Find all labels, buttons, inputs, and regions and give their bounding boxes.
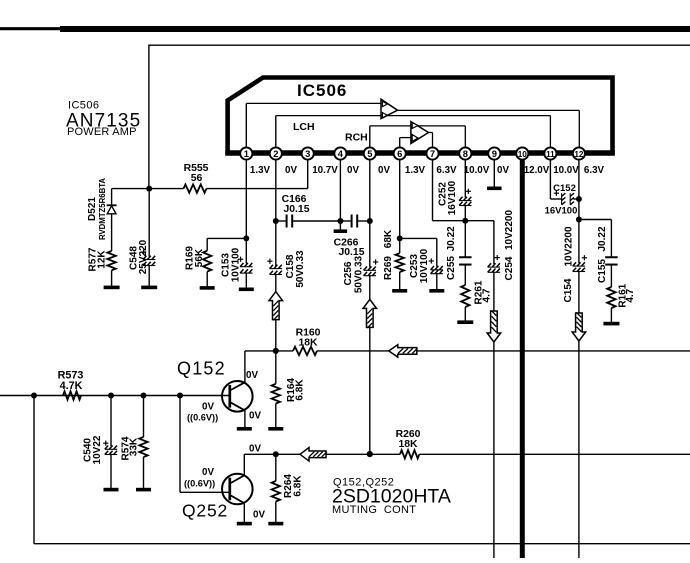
svg-text:18K: 18K — [398, 439, 418, 450]
svg-text:0V: 0V — [249, 411, 261, 422]
svg-text:11: 11 — [546, 150, 555, 159]
svg-text:0V: 0V — [202, 402, 214, 413]
svg-text:((0.6V)): ((0.6V)) — [184, 479, 215, 489]
svg-text:12K: 12K — [97, 250, 108, 269]
svg-text:5: 5 — [367, 148, 372, 159]
svg-text:7: 7 — [430, 148, 435, 159]
svg-text:D521: D521 — [87, 197, 98, 221]
svg-text:Q252: Q252 — [182, 501, 228, 521]
svg-text:4.7: 4.7 — [482, 288, 493, 302]
svg-text:1: 1 — [244, 148, 249, 159]
svg-text:Q152: Q152 — [177, 359, 226, 379]
svg-text:10.0V: 10.0V — [464, 165, 490, 176]
svg-text:16V100: 16V100 — [545, 206, 578, 217]
svg-text:9: 9 — [492, 148, 497, 159]
svg-text:18K: 18K — [298, 338, 318, 349]
svg-text:0V: 0V — [378, 165, 390, 176]
svg-text:LCH: LCH — [293, 121, 315, 133]
svg-text:10V2200: 10V2200 — [504, 210, 515, 250]
svg-text:C254: C254 — [504, 256, 515, 280]
svg-text:((0.6V)): ((0.6V)) — [187, 413, 218, 423]
svg-text:J0.22: J0.22 — [446, 226, 457, 251]
svg-text:16V100: 16V100 — [447, 180, 458, 215]
svg-text:J0.22: J0.22 — [597, 226, 608, 251]
svg-text:6: 6 — [397, 148, 402, 159]
svg-text:10.7V: 10.7V — [312, 165, 338, 176]
svg-text:MUTING CONT: MUTING CONT — [332, 504, 416, 516]
svg-text:12.0V: 12.0V — [524, 165, 550, 176]
svg-text:0V: 0V — [246, 370, 258, 381]
svg-text:10V22: 10V22 — [92, 435, 103, 464]
svg-text:50V0.33: 50V0.33 — [295, 250, 306, 288]
svg-text:RCH: RCH — [345, 132, 368, 144]
svg-text:6.8K: 6.8K — [295, 379, 306, 401]
svg-text:68K: 68K — [383, 229, 394, 248]
svg-text:0V: 0V — [202, 467, 214, 478]
svg-text:1.3V: 1.3V — [405, 165, 426, 176]
svg-text:C152: C152 — [553, 183, 576, 194]
svg-text:C256: C256 — [343, 261, 354, 285]
svg-text:R269: R269 — [383, 256, 394, 280]
svg-text:4.7K: 4.7K — [60, 380, 83, 392]
svg-text:6.8K: 6.8K — [293, 475, 304, 497]
svg-text:C154: C154 — [563, 278, 574, 302]
svg-text:2: 2 — [273, 148, 278, 159]
svg-text:C155: C155 — [597, 259, 608, 283]
svg-text:0V: 0V — [249, 444, 261, 455]
svg-text:3: 3 — [305, 148, 310, 159]
svg-text:1.3V: 1.3V — [250, 165, 271, 176]
svg-text:4.7: 4.7 — [625, 288, 636, 302]
svg-text:50V0.33: 50V0.33 — [354, 255, 365, 293]
svg-text:0V: 0V — [285, 165, 297, 176]
svg-text:6.3V: 6.3V — [436, 165, 457, 176]
svg-text:10.0V: 10.0V — [553, 165, 579, 176]
svg-text:RVDMTZ5R6BTA: RVDMTZ5R6BTA — [98, 178, 107, 240]
svg-text:4: 4 — [338, 148, 344, 159]
svg-text:POWER AMP: POWER AMP — [67, 126, 137, 138]
svg-text:25V220: 25V220 — [138, 239, 149, 274]
svg-text:10V100: 10V100 — [419, 248, 430, 283]
svg-text:10V100: 10V100 — [231, 247, 242, 282]
svg-text:0V: 0V — [253, 510, 265, 521]
svg-text:12: 12 — [574, 150, 584, 159]
svg-text:0V: 0V — [497, 165, 509, 176]
svg-text:8: 8 — [463, 148, 468, 159]
svg-text:0V: 0V — [347, 165, 359, 176]
svg-text:33K: 33K — [129, 437, 140, 456]
svg-text:J0.15: J0.15 — [283, 204, 309, 215]
svg-text:IC506: IC506 — [297, 81, 347, 100]
svg-text:10: 10 — [518, 150, 528, 159]
svg-text:10V2200: 10V2200 — [564, 226, 575, 266]
svg-text:56: 56 — [191, 173, 203, 184]
svg-text:56K: 56K — [194, 248, 205, 267]
svg-text:6.3V: 6.3V — [584, 165, 605, 176]
svg-text:C255: C255 — [446, 256, 457, 280]
